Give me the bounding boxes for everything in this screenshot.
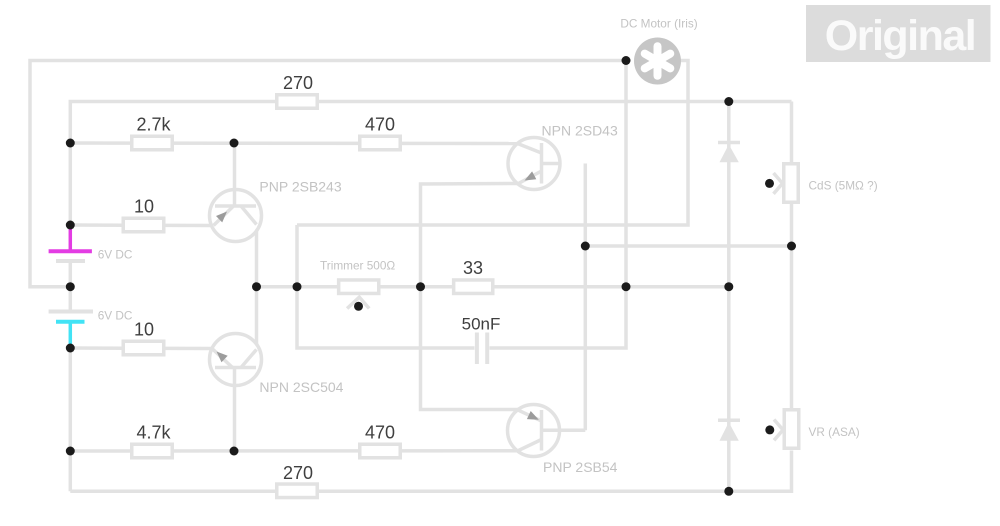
diode D2 xyxy=(718,420,740,440)
wire motor left drop x=626 xyxy=(624,61,628,287)
svg-text:470: 470 xyxy=(365,115,395,135)
svg-text:10: 10 xyxy=(134,197,154,217)
wire 2.7k/470 row y=143 xyxy=(70,141,517,145)
resistor R270 top xyxy=(277,95,318,109)
resistor R2.7k xyxy=(132,136,173,150)
svg-text:NPN 2SC504: NPN 2SC504 xyxy=(259,379,343,395)
wire bottom rail y=491.3 xyxy=(70,451,791,492)
svg-text:CdS (5MΩ ?): CdS (5MΩ ?) xyxy=(809,179,878,193)
resistor R470 top xyxy=(360,136,401,150)
motor M1 DC Motor (Iris) xyxy=(634,38,681,85)
wire bases link x=584.8 xyxy=(584,164,588,431)
diode D1 xyxy=(718,143,740,163)
value labels xyxy=(134,73,500,483)
resistor R10 top xyxy=(123,218,164,232)
wire collector link x=256.5 xyxy=(255,225,259,350)
svg-text:PNP 2SB54: PNP 2SB54 xyxy=(543,459,618,475)
trimmer 500 ohm xyxy=(339,280,379,311)
transistor Q3 NPN 2SD43 xyxy=(508,138,560,190)
wire 4.7k/470 row y=451 xyxy=(70,449,517,453)
wire top rail (battery+ to motor) xyxy=(30,61,626,287)
svg-text:NPN 2SD43: NPN 2SD43 xyxy=(542,122,618,138)
battery B2 6V DC xyxy=(49,287,93,349)
wire second rail y=101.5 xyxy=(70,102,791,226)
svg-text:Trimmer 500Ω: Trimmer 500Ω xyxy=(320,259,395,273)
resistor R270 bottom xyxy=(277,484,318,498)
transistor Q1 PNP 2SB243 xyxy=(210,190,262,242)
svg-text:33: 33 xyxy=(463,258,483,278)
resistor R470 bottom xyxy=(360,444,401,458)
svg-text:2.7k: 2.7k xyxy=(136,115,171,135)
svg-text:DC Motor (Iris): DC Motor (Iris) xyxy=(620,17,697,31)
wire Q3 emitter row y=183.5 xyxy=(421,184,519,410)
wire x=297 drop xyxy=(297,225,475,348)
svg-text:6V DC: 6V DC xyxy=(98,248,133,262)
svg-text:Original: Original xyxy=(825,12,975,60)
wire 10-ohm bottom row y=348 xyxy=(70,346,212,350)
wire 10-ohm top row y=225 xyxy=(70,223,213,227)
wire motor return loop y=225 xyxy=(297,61,688,226)
svg-text:270: 270 xyxy=(283,73,313,93)
photoresistor CdS xyxy=(765,164,798,203)
svg-text:10: 10 xyxy=(134,320,154,340)
wire CdS to bases row y=246 xyxy=(585,244,791,248)
resistor R10 bottom xyxy=(123,341,164,355)
potentiometer VR xyxy=(765,410,798,449)
wire Q1 base drop x=234.5 xyxy=(233,143,237,206)
svg-text:470: 470 xyxy=(365,423,395,443)
svg-text:6V DC: 6V DC xyxy=(98,309,133,323)
transistor Q4 PNP 2SB54 xyxy=(508,405,561,457)
wire trimmer row y=286.7 xyxy=(257,285,729,289)
svg-text:PNP 2SB243: PNP 2SB243 xyxy=(259,178,341,194)
wire Q4 base corner x=586 xyxy=(542,429,586,433)
wire CdS column bottom / VR top xyxy=(790,203,794,409)
svg-text:VR (ASA): VR (ASA) xyxy=(809,425,860,439)
wire Q2 base drop x=234.5 xyxy=(233,368,237,452)
resistor R33 xyxy=(454,280,493,294)
Original badge xyxy=(806,5,991,62)
wire battery left column xyxy=(69,348,73,491)
component name labels xyxy=(98,17,878,475)
capacitor C1 50nF xyxy=(477,333,487,365)
resistor R4.7k xyxy=(132,444,173,458)
junction node dots xyxy=(66,56,796,496)
battery B1 6V DC xyxy=(49,223,92,287)
transistor Q2 NPN 2SC504 xyxy=(210,334,262,386)
wire CdS column top xyxy=(790,102,794,164)
wire diode column x=728.8 xyxy=(727,102,731,492)
svg-text:270: 270 xyxy=(283,463,313,483)
wire capacitor right side y=348 xyxy=(490,287,627,348)
svg-text:50nF: 50nF xyxy=(462,315,501,334)
svg-text:4.7k: 4.7k xyxy=(136,423,171,443)
